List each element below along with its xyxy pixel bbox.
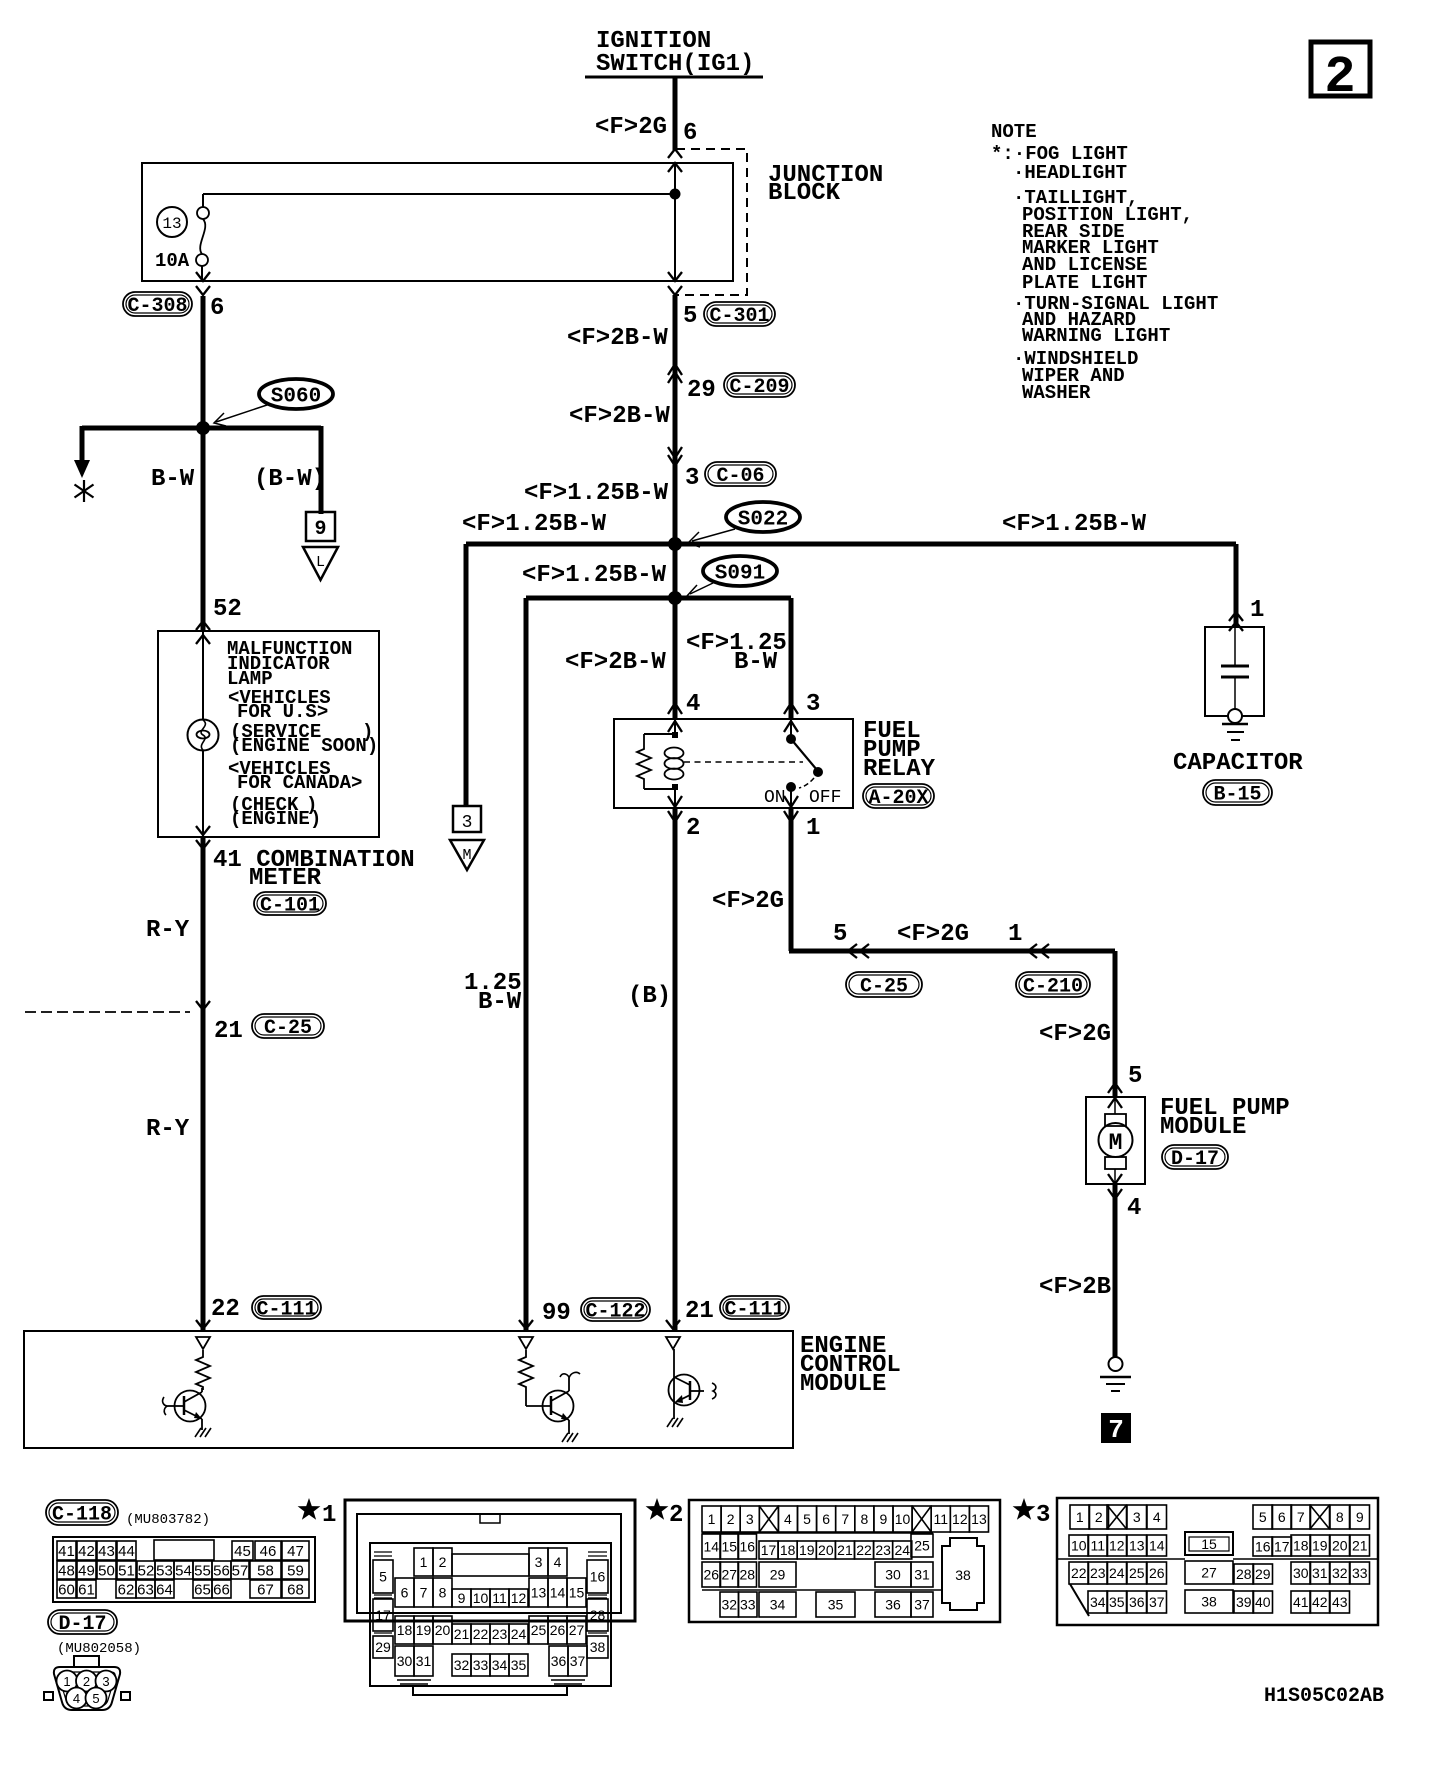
svg-text:38: 38 xyxy=(1201,1594,1217,1610)
connector C-308 pin 6 xyxy=(123,292,224,322)
svg-text:24: 24 xyxy=(894,1542,910,1558)
wire label (F)1.25B-W above S091 xyxy=(522,562,667,589)
svg-text:32: 32 xyxy=(721,1597,737,1613)
svg-text:(ENGINE SOON): (ENGINE SOON) xyxy=(230,735,378,757)
capacitor ground xyxy=(1222,724,1248,740)
splice S091 xyxy=(687,556,777,599)
chevron into ECM pin 22 xyxy=(196,1320,210,1329)
svg-text:6: 6 xyxy=(401,1585,409,1601)
svg-text:5: 5 xyxy=(683,303,697,330)
chevrons at C-209 xyxy=(668,364,682,383)
svg-text:5: 5 xyxy=(1259,1509,1267,1525)
svg-text:B-15: B-15 xyxy=(1213,784,1261,807)
svg-text:4: 4 xyxy=(73,1691,80,1706)
svg-text:27: 27 xyxy=(569,1622,585,1638)
svg-text:3: 3 xyxy=(535,1554,543,1570)
svg-text:43: 43 xyxy=(98,1543,115,1560)
svg-text:9: 9 xyxy=(1356,1509,1364,1525)
ECM pin 99 input triangle xyxy=(519,1337,533,1349)
fuel pump relay label xyxy=(863,718,936,783)
drawing number xyxy=(1264,1685,1384,1708)
ECM circuit resistor (pin99) xyxy=(519,1350,533,1391)
svg-text:29: 29 xyxy=(770,1567,786,1583)
harness boundary dashed line xyxy=(25,1011,190,1013)
svg-text:12: 12 xyxy=(511,1590,527,1606)
svg-text:16: 16 xyxy=(590,1569,606,1585)
svg-text:12: 12 xyxy=(952,1511,968,1527)
svg-text:45: 45 xyxy=(234,1543,251,1560)
splice S022 xyxy=(688,502,800,547)
relay coil windings xyxy=(665,748,684,780)
junction block box xyxy=(142,163,733,281)
svg-text:20: 20 xyxy=(1332,1538,1348,1554)
svg-text:S091: S091 xyxy=(715,563,765,586)
connector D-17 label (bottom) xyxy=(48,1610,117,1636)
S022 horizontal wire xyxy=(466,542,1236,547)
relay pin 2 xyxy=(668,796,700,842)
svg-text:62: 62 xyxy=(118,1581,135,1598)
svg-text:<F>2G: <F>2G xyxy=(1039,1021,1111,1048)
svg-text:8: 8 xyxy=(439,1585,447,1601)
wire label (F)1.25B-W right segment xyxy=(1002,511,1147,538)
svg-text:7: 7 xyxy=(420,1585,428,1601)
svg-text:7: 7 xyxy=(1297,1509,1305,1525)
svg-text:S060: S060 xyxy=(271,386,321,409)
svg-text:(MU802058): (MU802058) xyxy=(57,1641,141,1657)
triangle terminal L xyxy=(303,547,338,580)
svg-text:29: 29 xyxy=(1255,1566,1271,1582)
combination meter label pin 41 xyxy=(213,847,415,892)
svg-text:BLOCK: BLOCK xyxy=(768,180,841,207)
star2 connector drawing xyxy=(689,1500,1000,1622)
svg-text:11: 11 xyxy=(1090,1538,1105,1554)
fuel pump relay box xyxy=(614,719,853,808)
svg-text:19: 19 xyxy=(416,1622,432,1638)
svg-text:49: 49 xyxy=(78,1562,95,1579)
main wire C-301 down to fuel pump relay xyxy=(673,295,678,719)
chevrons wire into MIL box xyxy=(196,621,210,644)
junction node dot in junction block xyxy=(670,189,680,199)
wire S060 horizontal xyxy=(82,426,321,431)
chevron at C-25 crossing xyxy=(196,1001,210,1010)
svg-text:31: 31 xyxy=(1312,1565,1328,1581)
svg-text:68: 68 xyxy=(287,1581,304,1598)
svg-text:51: 51 xyxy=(118,1562,135,1579)
svg-text:34: 34 xyxy=(770,1597,786,1613)
svg-text:1: 1 xyxy=(1076,1509,1084,1525)
svg-text:1: 1 xyxy=(63,1674,70,1689)
connector C-25 (right) xyxy=(846,972,922,999)
capacitor box xyxy=(1205,627,1264,716)
wire inside junction block xyxy=(674,163,676,281)
svg-text:41: 41 xyxy=(58,1543,75,1560)
svg-text:1: 1 xyxy=(806,815,820,842)
svg-text:61: 61 xyxy=(78,1581,95,1598)
svg-text:C-06: C-06 xyxy=(716,465,764,488)
svg-text:5: 5 xyxy=(1128,1063,1142,1090)
svg-text:NOTE: NOTE xyxy=(991,121,1037,143)
svg-text:7: 7 xyxy=(1108,1415,1124,1445)
chevrons capacitor pin 1 xyxy=(1229,597,1264,631)
wire label (F)2B xyxy=(1039,1274,1111,1301)
svg-text:13: 13 xyxy=(971,1511,987,1527)
wire inside MIL box xyxy=(202,631,204,837)
svg-text:43: 43 xyxy=(1332,1594,1348,1610)
pin 52 combination meter xyxy=(213,596,242,623)
wire ignition switch to junction block xyxy=(673,78,678,150)
svg-text:54: 54 xyxy=(175,1562,192,1579)
MIL text block xyxy=(227,638,378,830)
svg-text:4: 4 xyxy=(1153,1509,1161,1525)
star1 connector drawing xyxy=(345,1500,635,1695)
svg-text:D-17: D-17 xyxy=(1171,1148,1219,1171)
svg-text:8: 8 xyxy=(1336,1509,1344,1525)
svg-text:23: 23 xyxy=(492,1626,508,1642)
svg-text:2: 2 xyxy=(439,1554,447,1570)
ECM pin 22 input triangle xyxy=(196,1337,210,1349)
svg-text:MODULE: MODULE xyxy=(1160,1114,1246,1141)
svg-text:METER: METER xyxy=(249,865,322,892)
svg-text:7: 7 xyxy=(841,1511,849,1527)
capacitor symbol xyxy=(1221,627,1249,723)
chevrons wire leaving MIL box xyxy=(196,826,210,849)
svg-text:4: 4 xyxy=(784,1511,792,1527)
junction dot S091 xyxy=(669,592,682,605)
svg-text:26: 26 xyxy=(550,1622,566,1638)
svg-text:59: 59 xyxy=(287,1562,304,1579)
svg-text:34: 34 xyxy=(1090,1594,1106,1610)
svg-text:OFF: OFF xyxy=(809,788,841,808)
svg-text:64: 64 xyxy=(156,1581,173,1598)
svg-text:H1S05C02AB: H1S05C02AB xyxy=(1264,1685,1384,1708)
svg-text:30: 30 xyxy=(397,1653,413,1669)
svg-text:13: 13 xyxy=(1129,1538,1145,1554)
ECM circuit resistor (pin22) xyxy=(196,1350,210,1390)
connector C-06 pin 3 xyxy=(685,462,776,492)
svg-text:<F>1.25B-W: <F>1.25B-W xyxy=(522,562,667,589)
svg-text:CAPACITOR: CAPACITOR xyxy=(1173,750,1303,777)
svg-text:17: 17 xyxy=(375,1607,391,1623)
svg-text:2: 2 xyxy=(1095,1509,1103,1525)
svg-text:4: 4 xyxy=(554,1554,562,1570)
svg-text:34: 34 xyxy=(492,1657,508,1673)
svg-text:33: 33 xyxy=(740,1597,756,1613)
svg-text:27: 27 xyxy=(1201,1565,1217,1581)
relay ON OFF labels xyxy=(764,788,841,808)
svg-text:(ENGINE): (ENGINE) xyxy=(230,808,321,830)
svg-text:14: 14 xyxy=(1149,1538,1165,1554)
svg-text:3: 3 xyxy=(746,1511,754,1527)
wire relay pin 2 down to ECM pin 21 xyxy=(673,808,678,1331)
relay switch contacts xyxy=(787,719,823,808)
relay pin 4 xyxy=(668,691,700,732)
svg-text:3: 3 xyxy=(1036,1502,1050,1529)
svg-text:38: 38 xyxy=(955,1567,971,1583)
connector D-17 (diagram) xyxy=(1162,1145,1228,1171)
engine control module label xyxy=(800,1333,901,1398)
wire C-308 down to S060 and MIL xyxy=(201,296,206,631)
svg-text:25: 25 xyxy=(1129,1565,1145,1581)
NOTE list xyxy=(991,121,1218,404)
chevron into ECM pin 99 xyxy=(519,1320,533,1329)
wire label R-Y lower xyxy=(146,1116,190,1143)
connector C-122 pin 99 xyxy=(542,1298,650,1327)
svg-text:2: 2 xyxy=(83,1674,90,1689)
fuel pump module label xyxy=(1160,1095,1290,1141)
ECM transistor Q2 xyxy=(526,1372,580,1434)
pin 1 label xyxy=(1008,921,1022,948)
svg-text:24: 24 xyxy=(511,1626,527,1642)
junction block dashed extension xyxy=(676,149,747,295)
svg-text:1: 1 xyxy=(420,1554,428,1570)
svg-text:21: 21 xyxy=(214,1018,243,1045)
svg-text:56: 56 xyxy=(213,1562,230,1579)
svg-text:19: 19 xyxy=(799,1542,815,1558)
ground ECM circuit 3 xyxy=(667,1418,683,1427)
svg-text:C-25: C-25 xyxy=(860,976,908,999)
svg-text:·HEADLIGHT: ·HEADLIGHT xyxy=(1013,162,1127,184)
svg-text:<F>2G: <F>2G xyxy=(897,921,969,948)
svg-text:FOR U.S>: FOR U.S> xyxy=(237,701,328,723)
svg-text:8: 8 xyxy=(860,1511,868,1527)
svg-text:FOR CANADA>: FOR CANADA> xyxy=(237,772,362,794)
svg-text:31: 31 xyxy=(914,1567,930,1583)
svg-text:R-Y: R-Y xyxy=(146,917,190,944)
svg-text:12: 12 xyxy=(1109,1538,1125,1554)
wire label B-W upper xyxy=(151,466,195,493)
svg-text:6: 6 xyxy=(210,295,224,322)
wire combination meter down to ECM xyxy=(201,837,206,1331)
svg-text:9: 9 xyxy=(880,1511,888,1527)
relay actuation dashed link xyxy=(684,761,803,763)
svg-text:17: 17 xyxy=(1274,1539,1290,1555)
svg-text:<F>2B-W: <F>2B-W xyxy=(569,403,670,430)
svg-text:37: 37 xyxy=(1149,1594,1165,1610)
svg-text:36: 36 xyxy=(1129,1594,1145,1610)
connector C-301 pin 5 xyxy=(683,302,775,330)
svg-text:<F>2B-W: <F>2B-W xyxy=(565,649,666,676)
svg-text:1: 1 xyxy=(322,1502,336,1529)
svg-text:31: 31 xyxy=(416,1653,432,1669)
wire label (F)2G at relay pin1 xyxy=(712,888,784,915)
svg-text:66: 66 xyxy=(213,1581,230,1598)
svg-text:65: 65 xyxy=(194,1581,211,1598)
svg-text:60: 60 xyxy=(58,1581,75,1598)
svg-text:26: 26 xyxy=(1149,1565,1165,1581)
svg-text:30: 30 xyxy=(1293,1565,1309,1581)
svg-text:3: 3 xyxy=(1133,1509,1141,1525)
svg-text:40: 40 xyxy=(1255,1594,1271,1610)
svg-text:33: 33 xyxy=(473,1657,489,1673)
svg-text:3: 3 xyxy=(102,1674,109,1689)
wire S091 to relay pin 3 xyxy=(789,598,794,719)
fuel pump module pin 4 xyxy=(1108,1174,1141,1222)
wire label (F)2G horizontal xyxy=(897,921,969,948)
svg-text:50: 50 xyxy=(98,1562,115,1579)
svg-text:<F>2B: <F>2B xyxy=(1039,1274,1111,1301)
svg-text:35: 35 xyxy=(1109,1594,1125,1610)
wire label (F)2B-W to relay pin4 xyxy=(565,649,666,676)
svg-text:41: 41 xyxy=(1293,1594,1309,1610)
svg-text:1: 1 xyxy=(1250,597,1264,624)
chevrons wire leaving junction block bottom (left/fuse) xyxy=(196,272,210,295)
svg-text:5: 5 xyxy=(833,921,847,948)
connector C-111 pin 22 xyxy=(211,1296,321,1323)
relay coil branch wires xyxy=(644,719,678,808)
svg-text:<F>1.25B-W: <F>1.25B-W xyxy=(1002,511,1147,538)
svg-text:39: 39 xyxy=(1236,1594,1252,1610)
connector C-101 xyxy=(254,892,326,918)
svg-text:<F>2B-W: <F>2B-W xyxy=(567,325,668,352)
svg-text:M: M xyxy=(1109,1130,1123,1156)
connector A-20X xyxy=(863,784,934,810)
svg-text:C-111: C-111 xyxy=(256,1299,316,1322)
wire label 1.25 B-W xyxy=(464,970,522,1016)
svg-text:25: 25 xyxy=(914,1538,930,1554)
svg-text:22: 22 xyxy=(856,1542,872,1558)
svg-text:42: 42 xyxy=(1312,1594,1328,1610)
fuse symbol xyxy=(196,194,209,281)
svg-text:52: 52 xyxy=(138,1562,155,1579)
svg-text:23: 23 xyxy=(1090,1565,1106,1581)
indicator lamp symbol xyxy=(188,720,219,751)
svg-text:C-210: C-210 xyxy=(1023,976,1083,999)
svg-text:35: 35 xyxy=(511,1657,527,1673)
C-118 part number xyxy=(126,1512,210,1528)
chevrons wire entering junction block xyxy=(668,149,682,172)
D-17 connector drawing xyxy=(44,1656,130,1710)
connector C-118 label xyxy=(46,1500,118,1527)
svg-text:27: 27 xyxy=(721,1567,737,1583)
svg-text:15: 15 xyxy=(1201,1536,1217,1552)
svg-text:(B): (B) xyxy=(628,983,671,1010)
svg-text:15: 15 xyxy=(721,1539,737,1555)
ECM transistor Q3 xyxy=(669,1349,716,1419)
star 2 marker xyxy=(646,1498,684,1529)
relay pin 1 xyxy=(784,796,820,842)
svg-text:20: 20 xyxy=(435,1622,451,1638)
svg-text:9: 9 xyxy=(458,1590,466,1606)
svg-text:21: 21 xyxy=(454,1626,470,1642)
svg-text:C-122: C-122 xyxy=(585,1301,645,1324)
relay coil resistor xyxy=(637,734,651,789)
svg-text:5: 5 xyxy=(92,1691,99,1706)
svg-text:19: 19 xyxy=(1312,1538,1328,1554)
D-17 part number xyxy=(57,1641,141,1657)
ignition switch (IG1) label xyxy=(585,28,763,78)
svg-text:4: 4 xyxy=(1127,1195,1141,1222)
svg-text:33: 33 xyxy=(1352,1565,1368,1581)
svg-text:1: 1 xyxy=(708,1511,716,1527)
svg-text:B-W: B-W xyxy=(151,466,195,493)
svg-text:28: 28 xyxy=(1236,1566,1252,1582)
svg-text:29: 29 xyxy=(375,1639,391,1655)
svg-text:11: 11 xyxy=(492,1590,507,1606)
wire fuel pump to ground xyxy=(1113,1184,1118,1357)
svg-text:B-W: B-W xyxy=(478,989,522,1016)
svg-text:3: 3 xyxy=(806,691,820,718)
svg-text:L: L xyxy=(316,554,325,571)
connector B-15 xyxy=(1203,780,1272,807)
svg-text:2: 2 xyxy=(1324,48,1355,107)
chevrons at C-210 crossing xyxy=(1028,944,1049,958)
svg-text:6: 6 xyxy=(822,1511,830,1527)
chevrons wire leaving junction block bottom (main) xyxy=(668,272,682,295)
connector C-209 pin 29 xyxy=(687,373,795,404)
junction block label xyxy=(768,162,883,207)
connector C-210 xyxy=(1016,972,1090,999)
svg-text:S022: S022 xyxy=(738,509,788,532)
wire label (F)2G xyxy=(595,114,667,141)
svg-text:10: 10 xyxy=(1071,1538,1087,1554)
svg-text:15: 15 xyxy=(569,1585,585,1601)
svg-text:(B-W): (B-W) xyxy=(254,466,326,493)
svg-text:6: 6 xyxy=(1278,1509,1286,1525)
wire label (F)2G vertical xyxy=(1039,1021,1111,1048)
svg-text:55: 55 xyxy=(194,1562,211,1579)
svg-text:37: 37 xyxy=(570,1653,586,1669)
asterisk note marker xyxy=(75,480,94,502)
chevron into ECM pin 21 xyxy=(666,1320,680,1329)
svg-text:36: 36 xyxy=(885,1597,901,1613)
svg-text:18: 18 xyxy=(397,1622,413,1638)
chevrons at C-06 xyxy=(668,447,682,466)
svg-text:25: 25 xyxy=(531,1622,547,1638)
svg-text:63: 63 xyxy=(137,1581,154,1598)
svg-text:(MU803782): (MU803782) xyxy=(126,1512,210,1528)
svg-text:9: 9 xyxy=(314,518,326,541)
svg-text:46: 46 xyxy=(260,1543,277,1560)
svg-text:C-209: C-209 xyxy=(729,376,789,399)
wire S022 branch down to terminal 3/M xyxy=(464,544,469,806)
svg-text:57: 57 xyxy=(232,1562,249,1579)
svg-text:C-301: C-301 xyxy=(709,305,769,328)
wire label (F)1.25B-W left of S022 line xyxy=(462,511,607,538)
svg-text:28: 28 xyxy=(590,1607,606,1623)
fuse rating 10A xyxy=(155,250,190,272)
svg-text:48: 48 xyxy=(58,1562,75,1579)
fuse 13 circled number xyxy=(157,207,187,237)
svg-text:PLATE LIGHT: PLATE LIGHT xyxy=(1022,272,1147,294)
svg-text:MODULE: MODULE xyxy=(800,1371,886,1398)
svg-text:18: 18 xyxy=(1293,1538,1309,1554)
wire to fog/head lights with arrow xyxy=(74,426,90,478)
svg-text:WASHER: WASHER xyxy=(1022,382,1091,404)
svg-text:37: 37 xyxy=(914,1597,930,1613)
fuel pump motor symbol xyxy=(1099,1097,1133,1184)
svg-text:21: 21 xyxy=(685,1298,714,1325)
svg-text:2: 2 xyxy=(686,815,700,842)
svg-text:99: 99 xyxy=(542,1300,571,1327)
svg-text:58: 58 xyxy=(257,1562,274,1579)
connector C-25 pin 21 (left) xyxy=(214,1014,324,1045)
svg-text:4: 4 xyxy=(686,691,700,718)
svg-text:38: 38 xyxy=(590,1639,606,1655)
svg-text:D-17: D-17 xyxy=(58,1613,106,1636)
engine control module box xyxy=(24,1331,793,1448)
svg-text:53: 53 xyxy=(156,1562,173,1579)
svg-text:14: 14 xyxy=(703,1539,719,1555)
star 3 marker xyxy=(1013,1498,1051,1529)
svg-text:29: 29 xyxy=(687,377,716,404)
ground ECM circuit 1 xyxy=(195,1428,211,1437)
svg-text:C-308: C-308 xyxy=(127,295,187,318)
triangle terminal M xyxy=(450,840,484,870)
ECM pin 21 input triangle xyxy=(666,1337,680,1349)
svg-text:26: 26 xyxy=(703,1567,719,1583)
svg-text:14: 14 xyxy=(550,1585,566,1601)
splice S060 xyxy=(214,379,333,426)
